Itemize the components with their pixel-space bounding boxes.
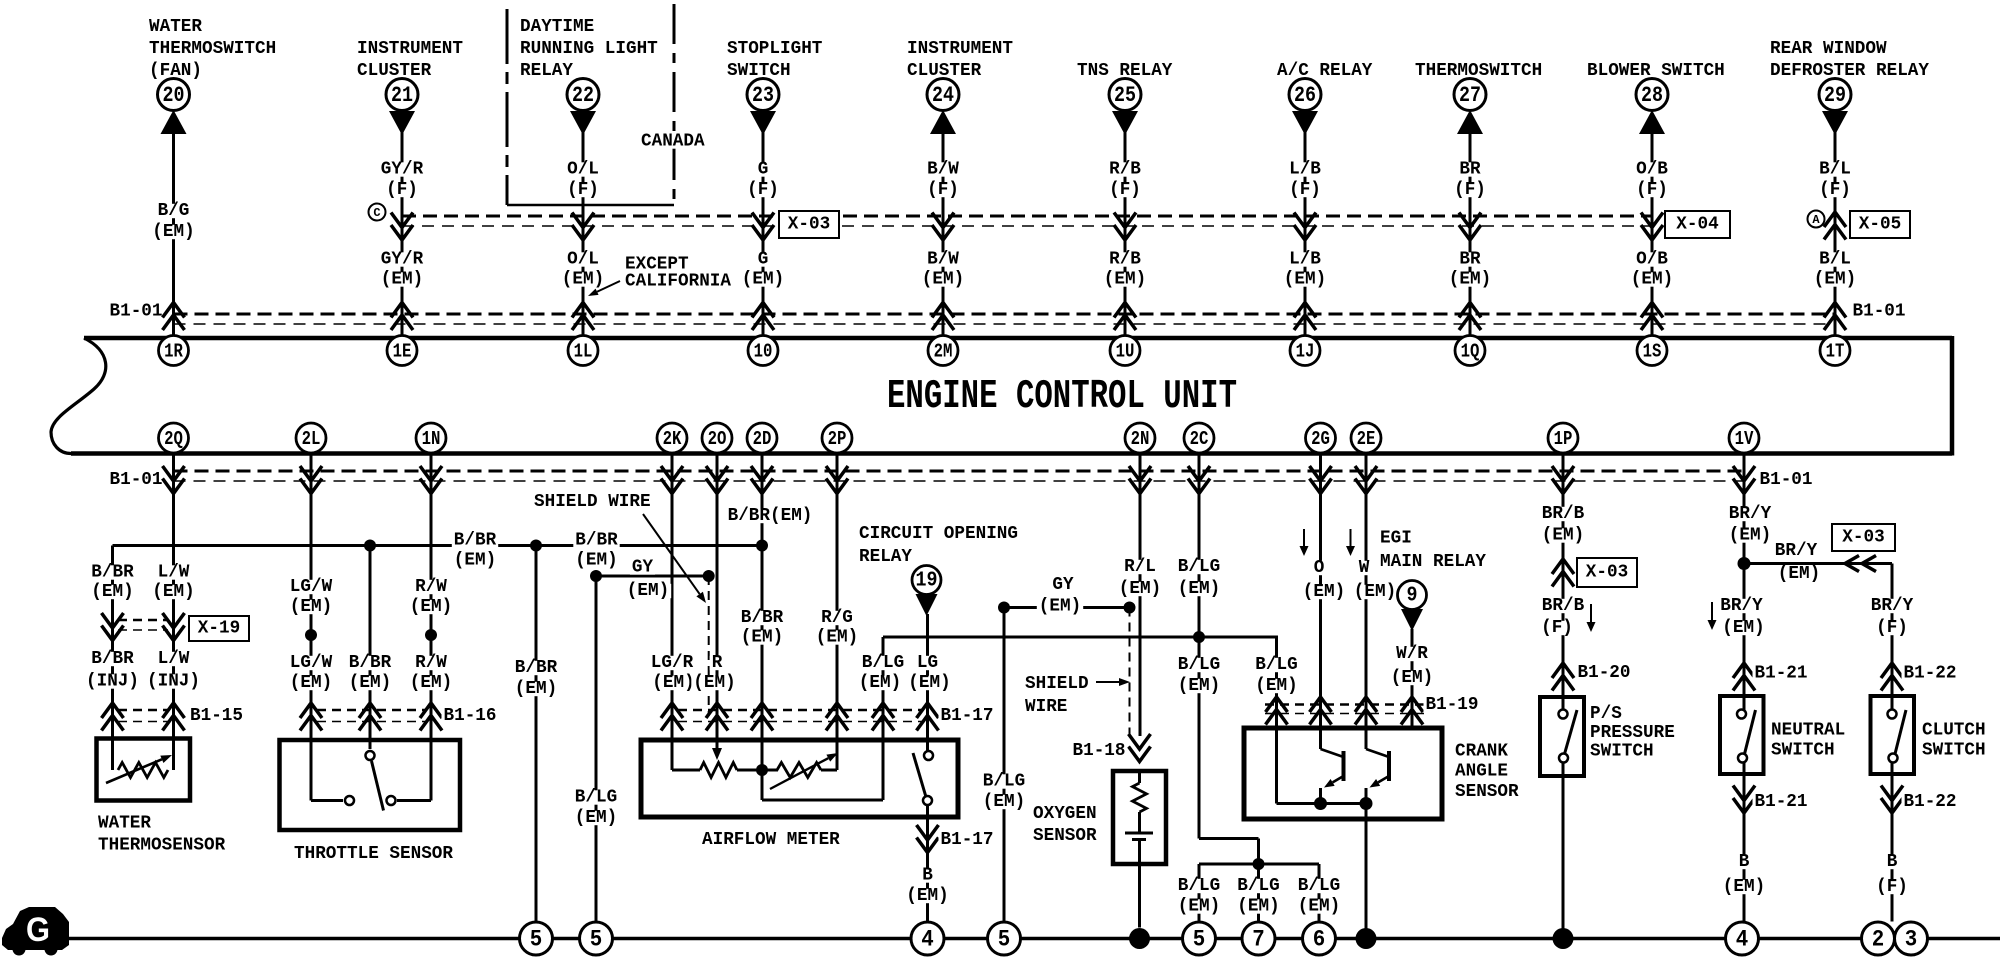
svg-text:G: G (758, 250, 769, 270)
flow arrow down W (1346, 529, 1355, 556)
clutch switch contacts (1888, 710, 1907, 763)
label wire color L/B (EM) col 26 (1282, 250, 1328, 290)
label B/BR (INJ) (84, 649, 141, 692)
shield wire dashed left (708, 576, 710, 716)
wire below clutch switch (1891, 762, 1894, 922)
svg-text:CRANK: CRANK (1455, 742, 1508, 762)
svg-text:B/L: B/L (1819, 250, 1851, 270)
label component name 25 (1077, 61, 1173, 81)
svg-text:PRESSURE: PRESSURE (1590, 723, 1675, 743)
svg-text:1N: 1N (422, 428, 441, 450)
label W/R (EM) (1389, 644, 1435, 688)
svg-text:LG/W: LG/W (290, 577, 333, 597)
svg-text:(INJ): (INJ) (147, 672, 200, 692)
neutral switch box (1720, 696, 1764, 774)
label GY (EM) left (625, 558, 671, 602)
component terminal 9 with arrow (1398, 581, 1427, 632)
label B/LG (EM) x596 (573, 788, 619, 829)
svg-text:SWITCH: SWITCH (727, 61, 791, 81)
svg-text:26: 26 (1294, 83, 1316, 108)
connector B1-17 chevrons LG (917, 703, 939, 731)
oxygen sensor box (1113, 771, 1166, 864)
label B/BR (EM) col 2D (739, 608, 785, 648)
svg-text:(F): (F) (1289, 180, 1321, 200)
connector B1-17 chevrons R (706, 703, 728, 731)
svg-text:(EM): (EM) (1298, 897, 1340, 917)
svg-text:G: G (758, 160, 769, 180)
label BR/Y (EM) on branch (1773, 541, 1822, 584)
label OXYGEN SENSOR (1033, 804, 1097, 846)
label R (EM) (691, 653, 737, 693)
connector B1-16 dashes (317, 710, 425, 722)
junction dot GY right-section left (998, 602, 1010, 614)
svg-text:R/L: R/L (1124, 557, 1156, 577)
label B1-18 (1071, 741, 1128, 761)
svg-text:G: G (26, 911, 50, 949)
svg-text:B/BR: B/BR (91, 649, 134, 669)
wire B/BR left drop (111, 546, 114, 741)
svg-text:L/W: L/W (158, 563, 190, 583)
label R/L (EM) (1117, 557, 1163, 599)
daytime running light relay CANADA region dash-dot border (507, 4, 674, 205)
ground connector circle 5 at x1199 (1183, 922, 1216, 955)
label BR/B (F) (1539, 596, 1586, 638)
svg-text:B/LG: B/LG (1255, 655, 1297, 675)
label CRANK ANGLE SENSOR (1455, 742, 1519, 803)
ECU pin 1P (1548, 423, 1578, 453)
connector B1-01 chevrons below pin 2C (1188, 466, 1210, 494)
component terminal 26 with arrow (1289, 79, 1321, 136)
ground connector circle 3 at x1911 (1895, 922, 1928, 955)
ECU pin 2L (296, 423, 326, 453)
svg-text:NEUTRAL: NEUTRAL (1771, 721, 1845, 741)
shield wire dashed right (1129, 608, 1131, 738)
label box X-19 (189, 616, 249, 641)
label L/W (EM) col173 (150, 563, 196, 603)
connector B1-18 chevrons (1129, 734, 1151, 762)
svg-text:BR/Y: BR/Y (1729, 504, 1772, 524)
label wire color R/B (F) col 25 (1107, 160, 1143, 201)
ground connector circle 4 at x1742 (1726, 922, 1759, 955)
splice dot LG/W (305, 629, 317, 641)
junction dot B/BR bus at x370 (364, 540, 376, 552)
svg-text:THERMOSWITCH: THERMOSWITCH (1415, 61, 1542, 81)
wire W/R from relay 9 (1411, 629, 1414, 730)
ground connector circle 2 at x1878 (1862, 922, 1895, 955)
svg-text:(F): (F) (1876, 618, 1908, 638)
svg-text:BLOWER SWITCH: BLOWER SWITCH (1587, 61, 1725, 81)
connector line B1-01 top dashed pair (174, 314, 1836, 324)
label BR/Y (EM) neutral (1718, 596, 1766, 638)
junction dot GY right on shield (703, 570, 715, 582)
svg-text:(EM): (EM) (410, 673, 452, 693)
svg-text:2D: 2D (753, 428, 772, 450)
ground junction dot oxygen (1129, 928, 1150, 949)
svg-text:(EM): (EM) (741, 628, 783, 648)
label B1-17 (939, 706, 996, 726)
label B/BR(EM) col 2D upper (726, 506, 815, 526)
ECU pin 1V (1729, 423, 1759, 453)
connector B1-01 chevrons below pin 2L (300, 466, 322, 494)
svg-text:O/L: O/L (567, 250, 599, 270)
connector X chevrons col 25 (1114, 213, 1136, 241)
svg-text:X-03: X-03 (1842, 528, 1884, 548)
svg-text:1U: 1U (1116, 341, 1135, 363)
svg-text:(EM): (EM) (742, 270, 784, 290)
svg-text:B1-20: B1-20 (1578, 663, 1631, 683)
label AIRFLOW METER (702, 830, 840, 850)
svg-text:B/BR: B/BR (349, 653, 392, 673)
wire from component 27 to ECU (1469, 130, 1472, 336)
splice dot R/W (425, 629, 437, 641)
svg-text:B1-19: B1-19 (1426, 695, 1479, 715)
label NEUTRAL SWITCH (1771, 721, 1845, 761)
svg-text:4: 4 (921, 927, 934, 953)
label box X-03 mid (1577, 558, 1637, 587)
wire from component 25 to ECU (1124, 130, 1127, 336)
svg-text:2K: 2K (663, 428, 682, 450)
connector B1-22 chevrons below (1881, 786, 1903, 814)
svg-text:B1-17: B1-17 (941, 830, 994, 850)
svg-text:BR: BR (1459, 250, 1480, 270)
label B1-01 top right (1851, 302, 1908, 322)
svg-text:X-04: X-04 (1676, 215, 1719, 235)
svg-text:B/LG: B/LG (575, 788, 617, 808)
wire B/BR from pin 2D (761, 453, 764, 771)
svg-text:(EM): (EM) (152, 582, 194, 602)
connector B1-01 chevrons below pin 2D (751, 466, 773, 494)
wire B/BR drop to ground x536 (535, 546, 538, 922)
svg-text:B/L: B/L (1819, 160, 1851, 180)
svg-text:29: 29 (1824, 83, 1846, 108)
wire R/L from pin 2N (1139, 453, 1142, 737)
label component name 23 (727, 39, 823, 81)
svg-text:O/B: O/B (1636, 160, 1668, 180)
label CLUTCH SWITCH (1922, 721, 1986, 761)
connector chevrons left on BR/Y branch (1845, 556, 1876, 572)
connector B1-17 chevrons B/BR (751, 703, 773, 731)
svg-text:B/LG: B/LG (1298, 876, 1340, 896)
svg-text:5: 5 (1193, 927, 1206, 953)
label box X-05 (1850, 211, 1910, 238)
svg-text:(EM): (EM) (906, 886, 948, 906)
connector B1-01 chevrons below pin 1V (1733, 466, 1755, 494)
label B (EM) airflow ground (904, 866, 950, 907)
ground connector circle 7 at x1258.5 (1242, 922, 1275, 955)
oxygen sensor cell (1125, 771, 1153, 928)
svg-text:CLUSTER: CLUSTER (357, 61, 431, 81)
svg-text:(EM): (EM) (91, 582, 133, 602)
svg-text:CLUSTER: CLUSTER (907, 61, 981, 81)
svg-text:B1-01: B1-01 (1760, 470, 1813, 490)
wire GY stub left (596, 575, 709, 578)
svg-text:(F): (F) (927, 180, 959, 200)
svg-text:3: 3 (1905, 927, 1918, 953)
svg-text:(F): (F) (1636, 180, 1668, 200)
label box X-03 top (779, 211, 839, 238)
svg-text:B/BR: B/BR (515, 658, 558, 678)
label wire color O/L (F) col 22 (565, 160, 601, 201)
connector B1-01 chevrons col 21 (391, 303, 413, 331)
connector B1-19 chevrons W/R (1401, 697, 1423, 725)
label component name 22 (520, 17, 658, 81)
connector B1-01 chevrons below pin 2K (661, 466, 683, 494)
svg-text:B/LG: B/LG (862, 653, 904, 673)
ground connector circle 5 at x1004 (988, 922, 1021, 955)
svg-text:B/LG: B/LG (983, 772, 1025, 792)
svg-text:B/LG: B/LG (1178, 876, 1220, 896)
ECU pin 10 (748, 336, 778, 366)
svg-text:DEFROSTER RELAY: DEFROSTER RELAY (1770, 61, 1929, 81)
label wire color L/B (F) col 26 (1287, 160, 1323, 201)
svg-text:INSTRUMENT: INSTRUMENT (907, 39, 1013, 59)
ground junction dot crank (1356, 928, 1377, 949)
svg-text:B/BR: B/BR (575, 531, 618, 551)
svg-text:2G: 2G (1311, 428, 1330, 450)
label B1-01 bottom right (1758, 470, 1815, 490)
svg-text:9: 9 (1407, 585, 1418, 608)
svg-text:(EM): (EM) (1722, 618, 1764, 638)
svg-text:(EM): (EM) (1039, 597, 1081, 617)
svg-text:(F): (F) (567, 180, 599, 200)
label R/W (EM) upper (408, 577, 454, 617)
svg-text:SHIELD WIRE: SHIELD WIRE (534, 492, 651, 512)
svg-text:B/BR: B/BR (741, 608, 784, 628)
wire B/LG from pin 2C (1199, 453, 1259, 865)
svg-text:5: 5 (530, 927, 543, 953)
svg-text:RELAY: RELAY (859, 547, 912, 567)
label BR/B (EM) (1540, 504, 1586, 546)
svg-text:1S: 1S (1643, 341, 1662, 363)
svg-text:20: 20 (163, 83, 185, 108)
svg-text:LG/W: LG/W (290, 653, 333, 673)
node A marker (1808, 211, 1825, 228)
flow arrow down BR/B (1587, 604, 1596, 632)
svg-text:1R: 1R (164, 341, 183, 363)
svg-text:(EM): (EM) (515, 679, 557, 699)
svg-text:W/R: W/R (1396, 644, 1428, 664)
label wire color GY/R (EM) col 21 (379, 250, 425, 290)
svg-text:B/BR(EM): B/BR(EM) (728, 506, 813, 526)
junction dot B/BR bus at x536 (530, 540, 542, 552)
label wire color B/W (EM) col 24 (920, 250, 966, 290)
throttle switch (311, 740, 431, 811)
label SHIELD WIRE right (1023, 674, 1091, 717)
svg-text:2P: 2P (828, 428, 847, 450)
svg-text:R/B: R/B (1109, 250, 1141, 270)
svg-text:X-05: X-05 (1859, 215, 1901, 235)
label B1-01 bottom left (108, 470, 165, 490)
ECU pin 2K (657, 423, 687, 453)
label BR/Y (EM) 1V (1727, 504, 1773, 546)
wire O from pin 2G (1319, 453, 1322, 750)
svg-text:R/W: R/W (415, 653, 447, 673)
connector B1-01 chevrons below pin 2G (1310, 466, 1332, 494)
label wire color R/B (EM) col 25 (1102, 250, 1148, 290)
svg-text:7: 7 (1252, 927, 1265, 953)
svg-text:R: R (712, 653, 723, 673)
junction dot BR/Y (1738, 557, 1751, 570)
component terminal 28 with arrow (1636, 79, 1668, 135)
label box X-03 right (1832, 524, 1895, 551)
svg-text:BR/Y: BR/Y (1720, 596, 1763, 616)
label B/BR (EM) x536 (513, 658, 559, 699)
ground connector circle 6 at x1319 (1303, 922, 1336, 955)
label GY (EM) right (1037, 575, 1083, 617)
svg-text:(EM): (EM) (562, 270, 604, 290)
connector B1-01 chevrons col 25 (1114, 303, 1136, 331)
shield wire callout arrow left (643, 514, 706, 603)
svg-text:LG/R: LG/R (651, 653, 694, 673)
label wire color GY/R (F) col 21 (379, 160, 425, 201)
label B1-20 (1576, 663, 1633, 683)
wire from component 21 to ECU (401, 130, 404, 336)
svg-text:2N: 2N (1131, 428, 1150, 450)
svg-text:WATER: WATER (98, 814, 151, 834)
svg-text:1Q: 1Q (1461, 341, 1480, 363)
svg-text:BR/Y: BR/Y (1871, 596, 1914, 616)
connector X chevrons col 26 (1294, 213, 1316, 241)
svg-text:2: 2 (1872, 927, 1885, 953)
svg-text:REAR WINDOW: REAR WINDOW (1770, 39, 1887, 59)
label component name 20 (149, 17, 276, 81)
svg-text:SENSOR: SENSOR (1455, 782, 1519, 802)
engine control unit box (51, 336, 1952, 456)
connector B1-01 chevrons col 24 (932, 303, 954, 331)
svg-text:B/G: B/G (158, 201, 190, 221)
connector B1-17 chevrons B/LG (872, 703, 894, 731)
connector B1-01 chevrons below pin 2Q (163, 466, 185, 494)
label LG/W (EM) upper (288, 577, 334, 617)
water thermosensor box (97, 739, 191, 801)
svg-text:O/B: O/B (1636, 250, 1668, 270)
wire ground trio manifold (1199, 864, 1319, 922)
svg-text:27: 27 (1459, 83, 1481, 108)
connector X-19 dashes (118, 620, 168, 630)
svg-text:B/LG: B/LG (1178, 655, 1220, 675)
ECU pin 2O (702, 423, 732, 453)
airflow meter box (641, 740, 958, 817)
svg-text:(EM): (EM) (1237, 897, 1279, 917)
wire long horizontal B/LG (883, 636, 1278, 639)
svg-text:B/W: B/W (927, 160, 959, 180)
label BR/Y (F) (1869, 596, 1915, 638)
label wire color B/L (F) col 29 (1817, 160, 1853, 201)
svg-text:(F): (F) (1876, 877, 1908, 897)
label wire color G (EM) col 23 (740, 250, 786, 290)
connector B1-01 chevrons below pin 1P (1552, 466, 1574, 494)
label R/G (EM) col 2P (814, 608, 860, 648)
connector X chevrons col 23 (752, 213, 774, 241)
svg-text:(EM): (EM) (816, 628, 858, 648)
label B1-22 upper (1902, 664, 1959, 684)
component terminal 22 with arrow (567, 79, 599, 136)
ECU pin 2C (1184, 423, 1214, 453)
svg-text:B: B (922, 866, 933, 886)
svg-text:2O: 2O (708, 428, 727, 450)
label wire color O/B (EM) col 28 (1629, 250, 1675, 290)
svg-text:(EM): (EM) (381, 270, 423, 290)
crank angle sensor box (1244, 728, 1442, 819)
svg-text:(EM): (EM) (290, 597, 332, 617)
svg-text:(EM): (EM) (1723, 877, 1765, 897)
svg-text:(EM): (EM) (1449, 270, 1491, 290)
component terminal 20 with arrow (158, 79, 190, 135)
svg-text:B/W: B/W (927, 250, 959, 270)
junction dot ground trio (1253, 858, 1265, 870)
label B/LG (EM) 2C upper (1176, 557, 1222, 599)
connector B1-17 chevrons R/G (826, 703, 848, 731)
label B1-21 upper (1753, 664, 1810, 684)
label B/LG (EM) 2C mid (1176, 655, 1222, 696)
svg-text:B1-21: B1-21 (1755, 792, 1808, 812)
label B/LG (EM) trio 1 (1176, 876, 1222, 917)
svg-text:P/S: P/S (1590, 704, 1622, 724)
ECU pin 1R (159, 336, 189, 366)
svg-text:(EM): (EM) (575, 808, 617, 828)
clutch switch box (1871, 696, 1915, 774)
svg-text:(EM): (EM) (693, 673, 735, 693)
svg-text:(EM): (EM) (1178, 897, 1220, 917)
svg-text:MAIN RELAY: MAIN RELAY (1380, 552, 1486, 572)
svg-text:ENGINE CONTROL UNIT: ENGINE CONTROL UNIT (887, 374, 1237, 420)
svg-text:TNS RELAY: TNS RELAY (1077, 61, 1173, 81)
label B/LG (EM) x1004 (981, 772, 1027, 813)
svg-text:THROTTLE SENSOR: THROTTLE SENSOR (294, 844, 453, 864)
label WATER THERMOSENSOR (98, 814, 225, 856)
label B/BR (EM) on bus left (452, 531, 498, 571)
svg-text:B/BR: B/BR (454, 531, 497, 551)
svg-text:1V: 1V (1735, 428, 1754, 450)
svg-text:SENSOR: SENSOR (1033, 826, 1097, 846)
svg-text:SWITCH: SWITCH (1590, 742, 1654, 762)
svg-text:19: 19 (916, 570, 938, 593)
svg-text:(F): (F) (1541, 618, 1573, 638)
thermistor in water thermosensor (106, 739, 174, 784)
svg-text:(F): (F) (386, 180, 418, 200)
svg-text:EGI: EGI (1380, 529, 1412, 549)
wire BR/Y clutch drop (1891, 564, 1894, 711)
svg-text:(EM): (EM) (1255, 676, 1297, 696)
svg-text:(EM): (EM) (1178, 579, 1220, 599)
svg-text:B1-22: B1-22 (1904, 792, 1957, 812)
connector B1-19 chevrons B/LG (1266, 697, 1288, 725)
label wire color G (F) col 23 (745, 160, 781, 201)
svg-text:1E: 1E (393, 341, 412, 363)
junction dot crank emitter 1 (1314, 797, 1327, 810)
connector B1-15 chevrons col112 (102, 703, 124, 731)
label THROTTLE SENSOR (294, 844, 453, 864)
svg-text:CIRCUIT OPENING: CIRCUIT OPENING (859, 524, 1018, 544)
svg-text:22: 22 (572, 83, 594, 108)
wire from component 26 to ECU (1304, 130, 1307, 336)
svg-text:THERMOSENSOR: THERMOSENSOR (98, 836, 225, 856)
label LG/R (EM) (649, 653, 697, 693)
svg-text:(EM): (EM) (1631, 270, 1673, 290)
svg-text:25: 25 (1114, 83, 1136, 108)
svg-text:4: 4 (1736, 927, 1749, 953)
label SHIELD WIRE left (534, 492, 651, 512)
ground connector circle 5 at x536 (520, 922, 553, 955)
ECU pin 2N (1125, 423, 1155, 453)
wire BR/Y from pin 1V (1743, 453, 1746, 711)
svg-text:(EM): (EM) (349, 673, 391, 693)
svg-text:INSTRUMENT: INSTRUMENT (357, 39, 463, 59)
wire BR/B from pin 1P (1562, 453, 1565, 711)
connector B1-01 chevrons col 23 (752, 303, 774, 331)
label P/S PRESSURE SWITCH (1590, 704, 1675, 762)
svg-text:(EM): (EM) (922, 270, 964, 290)
